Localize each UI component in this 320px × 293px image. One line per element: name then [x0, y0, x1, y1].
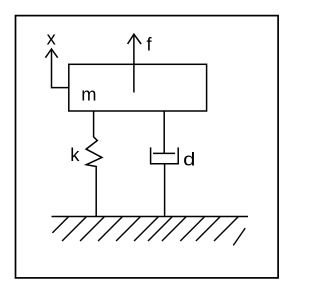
- hatch 2: [62, 217, 86, 241]
- damper cup: [151, 147, 179, 163]
- hatch 5: [116, 217, 140, 241]
- hatch 3: [80, 217, 104, 241]
- hatch 6: [134, 217, 158, 241]
- hatch 1: [52, 217, 68, 233]
- svg-text:x: x: [47, 28, 56, 49]
- ground line: [52, 216, 249, 218]
- hatch 8: [162, 217, 186, 241]
- ground hatching: [52, 217, 245, 246]
- hatch 10: [196, 217, 220, 241]
- damper piston plate: [153, 152, 175, 154]
- hatch 4: [98, 217, 122, 241]
- wire x-arrow connector: [52, 50, 69, 87]
- svg-text:d: d: [183, 148, 195, 169]
- svg-text:m: m: [81, 83, 96, 104]
- damper lower rod: [164, 164, 166, 217]
- arrowhead f: [128, 34, 142, 44]
- damper rod: [163, 111, 165, 153]
- mass block m: [69, 64, 207, 111]
- spring k: [86, 111, 102, 216]
- outer border frame: [16, 16, 279, 278]
- force arrow f line: [133, 35, 135, 92]
- svg-text:k: k: [70, 144, 80, 165]
- hatch 11: [214, 217, 238, 241]
- hatch 7: [148, 217, 172, 241]
- hatch 9: [180, 217, 204, 241]
- svg-text:f: f: [147, 34, 153, 55]
- hatch 12 short: [233, 228, 245, 245]
- arrowhead x: [45, 49, 57, 58]
